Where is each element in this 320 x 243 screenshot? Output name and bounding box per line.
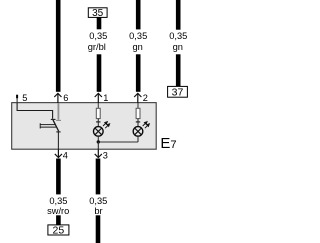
svg-text:1: 1 bbox=[103, 93, 108, 103]
wire: column2 lower segment (to terminal 1) bbox=[97, 54, 102, 92]
switch blade bbox=[53, 120, 59, 131]
lamp L1 LED arrows bbox=[103, 122, 110, 129]
wire: column2 bottom segment to page edge bbox=[96, 215, 101, 243]
svg-text:0,35: 0,35 bbox=[49, 196, 67, 206]
terminal 2 arrow bbox=[134, 93, 141, 103]
wire: column1 top thick (to terminal 6) bbox=[56, 0, 61, 92]
lamp1 stem from terminal 1 bbox=[97, 103, 99, 109]
wire: column4 lower segment (to box 37) bbox=[176, 54, 181, 86]
switch pivot contact tick bbox=[51, 118, 56, 120]
svg-text:gn: gn bbox=[173, 42, 183, 52]
wire: column1 bottom thick (from terminal 4) bbox=[56, 159, 61, 195]
terminal 5 stub bbox=[16, 95, 18, 104]
svg-text:0,35: 0,35 bbox=[89, 31, 107, 41]
lamp L2 bulb circle bbox=[133, 127, 143, 137]
svg-text:0,35: 0,35 bbox=[89, 196, 107, 206]
resistor R2 (lamp2 series) bbox=[136, 108, 140, 118]
terminal 1 arrow bbox=[95, 93, 102, 103]
svg-text:br: br bbox=[94, 206, 102, 216]
lamp1 wire resistor to bulb bbox=[97, 119, 99, 127]
svg-text:E7: E7 bbox=[160, 135, 176, 152]
switch bottom contact tick bbox=[56, 131, 60, 133]
resistor R1 (lamp1 series) bbox=[96, 108, 100, 118]
wire: column4 upper segment bbox=[176, 0, 181, 30]
junction node dot bbox=[97, 140, 100, 143]
lamp1 junction tick bbox=[96, 121, 100, 123]
svg-text:4: 4 bbox=[63, 150, 68, 160]
switch output lead to terminal 4 bbox=[57, 132, 59, 149]
connector box 37 bbox=[168, 86, 188, 97]
switch S internal: terminal5 wire path bbox=[17, 103, 53, 119]
lamp1 bottom lead bbox=[97, 136, 99, 142]
svg-text:2: 2 bbox=[143, 93, 148, 103]
lamp L2 X cross bbox=[135, 128, 142, 135]
terminal 3 arrow bbox=[95, 149, 102, 157]
switch fixed contact tick (gray) bbox=[56, 119, 61, 121]
lamp2 stem from terminal 2 bbox=[137, 103, 139, 109]
svg-text:0,35: 0,35 bbox=[169, 31, 187, 41]
svg-text:37: 37 bbox=[172, 87, 184, 99]
wire: column2 upper segment (below box 35) bbox=[97, 17, 102, 29]
svg-text:3: 3 bbox=[103, 150, 108, 160]
lamp2 bottom lead bbox=[137, 136, 139, 142]
svg-text:gn: gn bbox=[133, 42, 143, 52]
wire junction to terminal 3 bbox=[97, 142, 99, 149]
lamp2 junction tick bbox=[136, 121, 140, 123]
svg-text:5: 5 bbox=[22, 93, 27, 103]
switch actuator plunger (double line with end bar) bbox=[40, 123, 56, 128]
wire: column1 bottom segment to box 25 bbox=[56, 215, 61, 225]
wire: column3 lower segment (to terminal 2) bbox=[136, 54, 141, 92]
terminal 6 arrow bbox=[54, 93, 61, 103]
lamp L2 LED arrows bbox=[143, 122, 150, 129]
internal bus wire joining lamps bbox=[98, 141, 138, 143]
lamp L1 X cross bbox=[95, 128, 102, 135]
svg-text:0,35: 0,35 bbox=[129, 31, 147, 41]
switch fixed contact line (terminal 6, gray) bbox=[57, 103, 59, 120]
wire: column2 bottom thick (from terminal 3) bbox=[96, 159, 101, 195]
svg-text:gr/bl: gr/bl bbox=[88, 42, 106, 52]
wire: column3 upper segment bbox=[136, 0, 141, 29]
connector box 25 bbox=[48, 225, 69, 235]
connector box 35 bbox=[88, 8, 107, 18]
svg-text:sw/ro: sw/ro bbox=[47, 206, 69, 216]
lamp2 wire resistor to bulb bbox=[137, 119, 139, 127]
component box E7 body bbox=[12, 103, 157, 150]
lamp L1 bulb circle bbox=[94, 127, 104, 137]
svg-text:6: 6 bbox=[63, 93, 68, 103]
svg-text:25: 25 bbox=[53, 225, 65, 237]
terminal 4 arrow bbox=[55, 149, 62, 157]
